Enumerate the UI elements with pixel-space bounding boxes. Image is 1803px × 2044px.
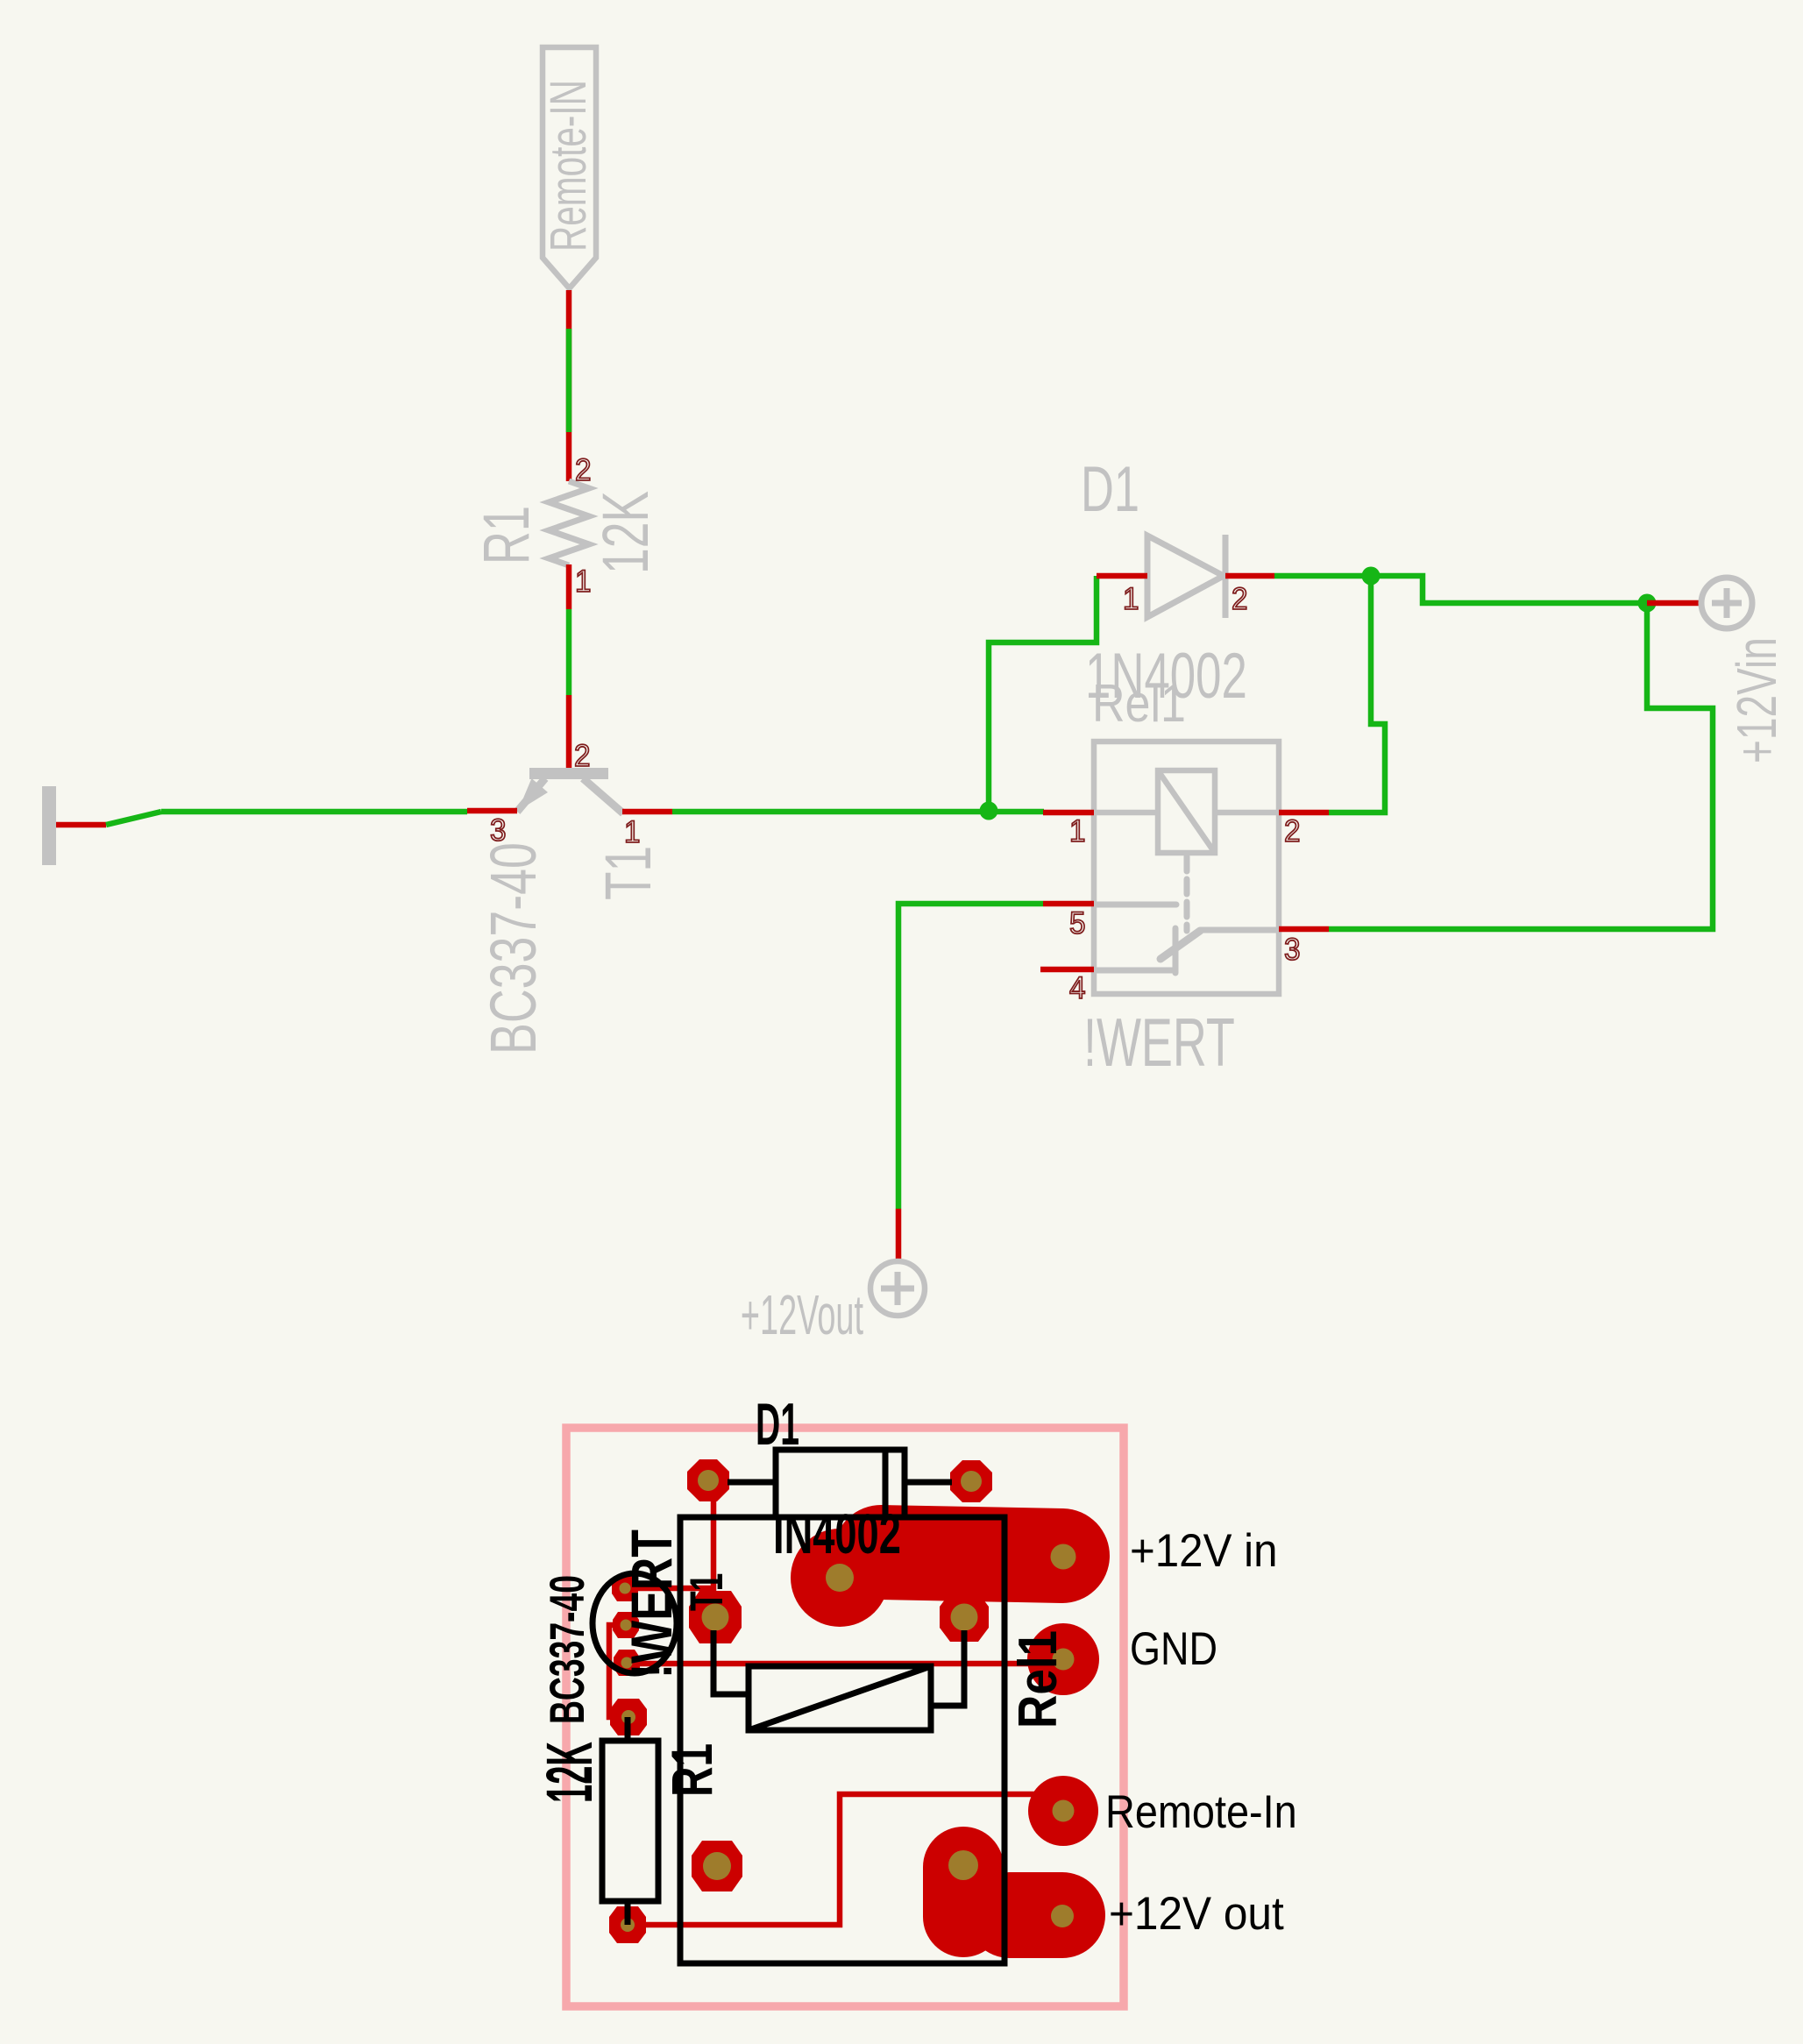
svg-text:3: 3 <box>1284 933 1300 967</box>
hole T1.3 <box>621 1657 633 1669</box>
trace to T1 collector <box>625 1586 713 1592</box>
hole coil right <box>951 1604 978 1631</box>
trace GND <box>627 1661 1063 1667</box>
pad R1 top octagon <box>610 1699 647 1735</box>
net label flag Remote-IN <box>540 47 597 288</box>
svg-text:IN4002: IN4002 <box>773 1502 901 1565</box>
wire T1.1 to Rel1.1 <box>672 809 1044 815</box>
pad spare octagon <box>692 1841 742 1891</box>
pin stub Rel1.3 <box>1279 926 1329 933</box>
junction node at +12Vin <box>1638 594 1657 613</box>
transistor T1 <box>476 768 664 1054</box>
hole GND <box>1053 1649 1075 1671</box>
board outline <box>566 1428 1124 2006</box>
wire label-to-R1 green over stub <box>566 329 572 432</box>
svg-text:4: 4 <box>1069 971 1085 1005</box>
pad center circle of +12V in net <box>791 1529 889 1627</box>
hole coil left <box>702 1604 729 1631</box>
ground symbol <box>42 786 56 865</box>
hole +12V out blob top <box>948 1850 978 1880</box>
wire D1.2 to junction <box>1274 573 1371 579</box>
pin stub Rel1.4 <box>1040 967 1094 973</box>
hole T1.2 <box>621 1620 632 1631</box>
pad T1.2 octagon <box>613 1612 639 1638</box>
svg-text:R1: R1 <box>470 506 543 564</box>
pad GND round <box>1027 1623 1099 1695</box>
hole D1.2 <box>961 1471 982 1492</box>
pad D1.1 octagon <box>687 1459 729 1501</box>
silk relay outline <box>619 1517 1068 1963</box>
svg-text:Rel1: Rel1 <box>1008 1630 1068 1728</box>
hole +12V out <box>1051 1905 1074 1927</box>
diode D1 <box>1081 454 1247 713</box>
relay Rel1 <box>1083 674 1279 1082</box>
silk diode D1 body <box>728 1391 952 1565</box>
svg-text:D1: D1 <box>756 1391 799 1458</box>
svg-text:T1: T1 <box>592 846 664 900</box>
wire up from junction to D1 <box>989 576 1097 812</box>
pin stub D1.1 <box>1097 573 1147 579</box>
pin stub ground <box>56 822 106 828</box>
svg-text:2: 2 <box>1232 582 1247 616</box>
svg-text:Remote-In: Remote-In <box>1105 1785 1297 1837</box>
supply symbol +12Vout <box>741 1261 925 1347</box>
pin stub T1.1 <box>622 809 672 815</box>
svg-text:2: 2 <box>575 453 591 487</box>
svg-text:R1: R1 <box>661 1743 725 1797</box>
svg-text:GND: GND <box>1130 1623 1217 1675</box>
trace D1 to coil pad <box>711 1478 717 1617</box>
hole center pad <box>826 1564 854 1592</box>
pin stub T1 base <box>566 695 572 768</box>
svg-text:+12V out: +12V out <box>1109 1887 1284 1939</box>
hole spare <box>703 1852 731 1880</box>
pad T1.1 octagon <box>612 1575 638 1601</box>
wire ground diagonal <box>106 812 161 825</box>
svg-text:Remote-IN: Remote-IN <box>540 80 597 252</box>
hole R1 top <box>621 1710 635 1724</box>
pad D1.2 octagon <box>950 1460 992 1502</box>
pad coil left octagon <box>689 1591 742 1643</box>
pin stub Rel1.5 <box>1043 901 1094 907</box>
wire +12Vin down to Rel1.3 <box>1329 603 1713 929</box>
pin stub D1.2 <box>1225 573 1274 579</box>
pad R1 bottom octagon <box>609 1906 646 1943</box>
wire ground to T1.3 <box>161 809 467 815</box>
PCB <box>535 1391 1297 2006</box>
svg-text:D1: D1 <box>1081 454 1139 526</box>
pin stub Rel1.1 <box>1043 810 1094 816</box>
svg-text:12K: 12K <box>589 491 662 574</box>
junction node <box>980 802 998 820</box>
pin stub R1 pin2 top <box>566 290 572 481</box>
silk resistor R1 <box>535 1717 725 1925</box>
svg-text:T1: T1 <box>680 1573 732 1611</box>
pad T1.3 octagon <box>614 1650 640 1676</box>
svg-text:12K: 12K <box>535 1742 607 1803</box>
trace T1 base to R1 <box>609 1625 628 1717</box>
pin stub +12Vin <box>1647 600 1701 607</box>
pin stub Rel1.2 <box>1279 810 1329 816</box>
hole R1 bottom <box>621 1918 635 1932</box>
supply symbol +12Vin <box>1701 578 1788 763</box>
pad Remote-In round <box>1028 1776 1098 1846</box>
wire R1 to T1 base <box>566 609 572 695</box>
trace +12V out vertical thick <box>923 1867 1004 1917</box>
svg-text:2: 2 <box>574 739 590 773</box>
pin stub +12Vout <box>896 1209 902 1262</box>
svg-text:3: 3 <box>490 813 506 848</box>
trace +12V out horizontal thick <box>1010 1872 1062 1958</box>
resistor R1 <box>470 481 662 574</box>
hole Remote-In <box>1053 1800 1075 1822</box>
pad coil right octagon <box>940 1593 989 1642</box>
svg-text:+12Vin: +12Vin <box>1726 637 1788 763</box>
trace R1 to Remote-In <box>628 1794 1063 1925</box>
hole T1.1 <box>620 1583 631 1594</box>
svg-text:!WERT: !WERT <box>1083 1004 1235 1081</box>
pin stub R1 pin1 bottom <box>566 564 572 609</box>
svg-text:BC337-40: BC337-40 <box>476 842 550 1054</box>
hole D1.1 <box>698 1470 719 1491</box>
svg-text:2: 2 <box>1284 814 1300 848</box>
svg-text:BC337-40: BC337-40 <box>541 1575 595 1724</box>
svg-text:1: 1 <box>624 815 640 849</box>
svg-text:1: 1 <box>1123 582 1139 616</box>
svg-text:+12V in: +12V in <box>1130 1524 1277 1576</box>
wire junction to +12Vin <box>1371 576 1647 603</box>
silk transistor T1 circle <box>541 1573 733 1724</box>
wire Rel1.5 to +12Vout <box>898 904 1043 1209</box>
svg-text:1: 1 <box>1069 814 1085 848</box>
svg-text:+12Vout: +12Vout <box>741 1284 863 1347</box>
wire junction down to Rel1.2 <box>1329 576 1385 813</box>
pin stub T1.3 <box>467 808 517 814</box>
svg-text:1: 1 <box>575 564 591 599</box>
hole +12V in <box>1051 1544 1076 1570</box>
svg-text:5: 5 <box>1069 906 1085 940</box>
trace +12V in thick <box>881 1552 1062 1556</box>
svg-text:Rel1: Rel1 <box>1092 674 1186 733</box>
junction node at D1 out <box>1362 567 1381 586</box>
